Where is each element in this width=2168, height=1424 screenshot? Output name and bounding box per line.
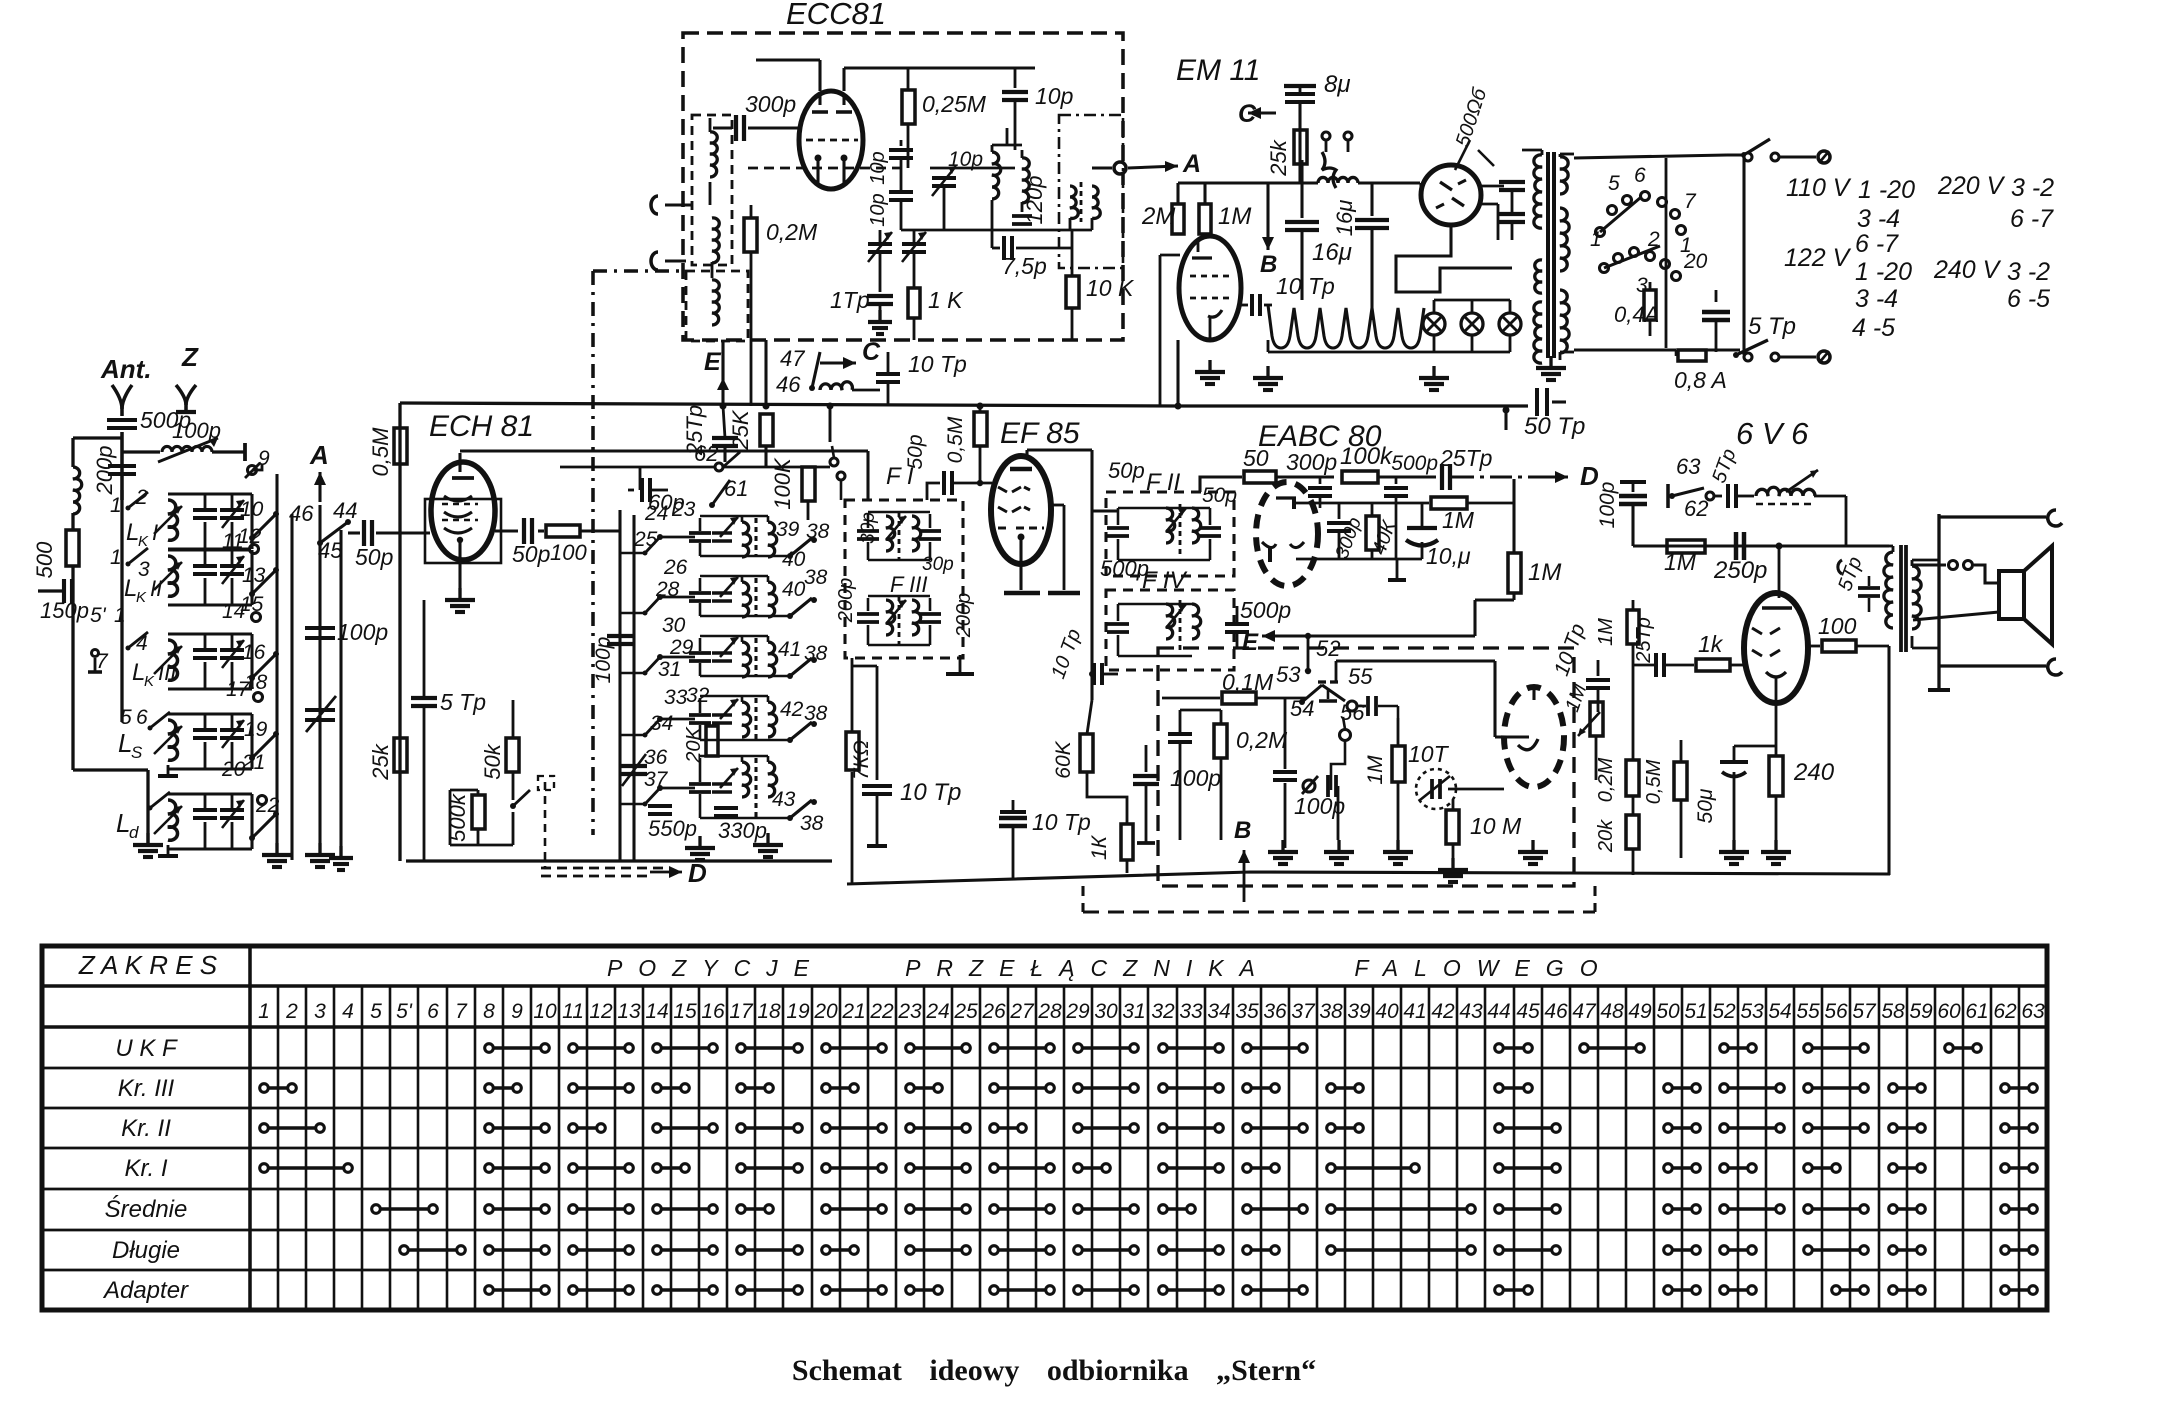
coil FM lower2 [712, 280, 719, 325]
svg-text:2M: 2M [1141, 203, 1175, 230]
svg-text:1: 1 [110, 546, 122, 569]
svg-text:45: 45 [1516, 1000, 1540, 1023]
terminal bottom right [2048, 659, 2062, 675]
svg-text:50μ: 50μ [1694, 788, 1717, 823]
wire 6V6 bottom [1887, 646, 1890, 875]
capacitor 50u cathode [1733, 746, 1736, 760]
svg-text:5': 5' [90, 604, 107, 627]
svg-text:Kr. III: Kr. III [118, 1075, 175, 1102]
capacitor 50p ECH81 output [495, 529, 518, 532]
resistor 25k [394, 738, 407, 772]
svg-text:7,5p: 7,5p [1002, 253, 1047, 279]
svg-text:E: E [1242, 629, 1259, 656]
svg-text:1М: 1М [1364, 755, 1387, 785]
svg-text:38: 38 [804, 642, 828, 665]
svg-text:20: 20 [1683, 250, 1708, 273]
svg-text:25Тp: 25Тp [1633, 617, 1655, 664]
svg-text:0,25M: 0,25M [922, 91, 987, 117]
svg-text:C: C [862, 338, 881, 366]
svg-text:14: 14 [645, 1000, 668, 1023]
svg-text:0,2M: 0,2M [766, 219, 818, 245]
svg-text:50k: 50k [480, 743, 505, 779]
svg-text:41: 41 [778, 638, 801, 661]
svg-text:5': 5' [396, 1000, 413, 1023]
svg-text:Z A K R E S: Z A K R E S [78, 950, 218, 980]
coil FM antenna upper [710, 132, 717, 177]
svg-text:31: 31 [658, 658, 681, 681]
wire ECH81 stage box [398, 403, 401, 861]
switch levers coil bank [252, 514, 276, 538]
svg-text:46: 46 [289, 501, 314, 526]
svg-text:12: 12 [589, 1000, 613, 1023]
wire EF85 plate to FII [1025, 450, 1028, 456]
dashed box FM input coil lower [686, 271, 748, 341]
capacitor 5Tp mains [1715, 290, 1718, 302]
svg-text:1М: 1М [1528, 559, 1561, 586]
power transformer secondary windings [1560, 157, 1568, 194]
svg-text:100k: 100k [1340, 443, 1394, 470]
svg-text:15: 15 [673, 1000, 697, 1023]
resistor 7K2 decoupling [851, 658, 854, 732]
dashed box FIV [1106, 590, 1234, 670]
dash-dot inner box right [1059, 115, 1123, 268]
resistor 10K [1071, 248, 1074, 276]
svg-text:43: 43 [772, 788, 796, 811]
core arrow of Ld [154, 806, 182, 834]
svg-text:10Т: 10Т [1408, 741, 1450, 767]
IF-osc transformer row 5 [660, 787, 695, 790]
wire antenna bus [120, 432, 124, 500]
svg-text:1М: 1М [1595, 618, 1617, 646]
terminal to A [1092, 166, 1112, 169]
svg-text:60: 60 [1937, 1000, 1961, 1023]
wire ECH81 anode to FI [460, 449, 868, 452]
svg-text:5: 5 [1608, 172, 1620, 195]
resistor 1M 6V6 grid [1667, 540, 1705, 553]
svg-text:16μ: 16μ [1312, 239, 1352, 266]
coil output link primary [1070, 186, 1078, 218]
svg-text:Długie: Długie [112, 1237, 180, 1264]
capacitor 200p [108, 464, 136, 468]
svg-text:5: 5 [370, 1000, 382, 1023]
svg-text:110 V: 110 V [1786, 174, 1852, 202]
svg-text:28: 28 [1037, 1000, 1062, 1023]
svg-text:29: 29 [669, 636, 694, 659]
wire bottom left to Ld [73, 768, 148, 771]
svg-text:26: 26 [663, 556, 688, 579]
svg-text:K: K [144, 673, 155, 690]
svg-text:0,5M: 0,5M [944, 416, 967, 463]
ground speaker [1928, 688, 1950, 692]
svg-text:16μ: 16μ [1332, 200, 1357, 237]
mains switch bottom [1733, 352, 1739, 358]
svg-text:19: 19 [244, 718, 268, 741]
svg-text:44: 44 [1487, 1000, 1510, 1023]
svg-text:51: 51 [1684, 1000, 1707, 1023]
svg-text:6: 6 [1634, 164, 1646, 187]
mains selector upper fan [1596, 228, 1605, 237]
wire osc section [901, 229, 1092, 232]
svg-text:23: 23 [897, 1000, 922, 1023]
small switch levers left side [128, 492, 148, 508]
dashed leader to D bottom [545, 782, 560, 868]
resistor 100K [802, 467, 815, 501]
svg-text:C: C [1238, 100, 1257, 128]
table connection marks [489, 1046, 545, 1050]
svg-text:27: 27 [1009, 1000, 1035, 1023]
capacitor 10p variable osc [930, 167, 968, 170]
ground heater [1268, 351, 1510, 354]
svg-text:48: 48 [1600, 1000, 1624, 1023]
capacitor 1Tp [867, 294, 893, 298]
svg-text:PRZEŁĄCZNIKA: PRZEŁĄCZNIKA [905, 955, 1271, 981]
svg-text:38: 38 [806, 520, 830, 543]
svg-text:25k: 25k [1266, 139, 1291, 176]
svg-text:40: 40 [782, 548, 806, 571]
svg-text:47: 47 [780, 346, 805, 371]
fuse 0,8A [1650, 348, 1676, 351]
svg-text:1 K: 1 K [928, 287, 964, 313]
resistor 1M EM11 [1199, 204, 1211, 234]
svg-text:ECC81: ECC81 [786, 0, 886, 31]
svg-text:Średnie: Średnie [105, 1195, 188, 1223]
svg-text:100p: 100p [592, 637, 615, 684]
svg-text:B: B [1260, 251, 1277, 278]
tube EABC80 envelope dashed [1256, 482, 1318, 586]
arrow C left [1248, 111, 1276, 114]
svg-text:36: 36 [1263, 1000, 1287, 1023]
svg-text:35: 35 [1235, 1000, 1259, 1023]
coil FM antenna lower [712, 218, 719, 263]
svg-text:A: A [1182, 150, 1201, 178]
svg-text:150p: 150p [40, 598, 89, 623]
svg-text:FALOWEGO: FALOWEGO [1354, 955, 1613, 981]
coil output link secondary [1092, 186, 1100, 218]
svg-text:36: 36 [644, 746, 668, 769]
wire EF85 bottom bus [847, 872, 1890, 884]
svg-text:1 -20: 1 -20 [1855, 258, 1912, 286]
dashed box EABC80 section [1158, 648, 1574, 886]
output transformer [1884, 552, 1893, 628]
svg-text:33: 33 [664, 686, 688, 709]
svg-text:46: 46 [1544, 1000, 1568, 1023]
svg-text:30p: 30p [858, 512, 879, 544]
tube EABC80 triode dashed [1504, 687, 1564, 787]
svg-text:1М: 1М [1442, 507, 1475, 533]
svg-text:33: 33 [1179, 1000, 1203, 1023]
svg-text:3: 3 [138, 558, 150, 581]
svg-text:29: 29 [1065, 1000, 1090, 1023]
resistor 1K EF85 cathode [1121, 824, 1133, 860]
svg-text:6 -7: 6 -7 [1855, 230, 1899, 258]
svg-text:21: 21 [841, 1000, 865, 1023]
resistor 500k [477, 790, 480, 795]
switch lever right row 1 [768, 555, 790, 558]
wire matrix left buses [618, 510, 621, 861]
svg-text:55: 55 [1796, 1000, 1820, 1023]
svg-text:5: 5 [120, 706, 132, 729]
svg-text:300p: 300p [1286, 449, 1337, 475]
switch 62 contact [560, 466, 830, 469]
mains switch top [1727, 153, 1744, 156]
svg-text:18: 18 [757, 1000, 781, 1023]
capacitor fixed of Ls circuit [168, 712, 252, 715]
svg-text:34: 34 [1207, 1000, 1230, 1023]
resistor 1K ECC81 cathode [908, 288, 920, 318]
capacitor 16u first [1300, 160, 1303, 218]
grounds EABC80 [1281, 840, 1284, 852]
svg-text:41: 41 [1403, 1000, 1426, 1023]
svg-text:58: 58 [1881, 1000, 1905, 1023]
svg-text:1k: 1k [1698, 631, 1724, 657]
svg-text:0,8 A: 0,8 A [1674, 367, 1727, 393]
wire band-switch left bus [120, 490, 123, 722]
capacitor 500p antenna series [107, 418, 137, 422]
capacitor 10Tp ECC81 [852, 389, 880, 392]
arrow E exit [721, 340, 724, 380]
capacitor 300p AF [1338, 503, 1341, 519]
potentiometer 1M feedback [1590, 702, 1603, 736]
svg-text:4: 4 [342, 1000, 354, 1023]
ground matrix rows [698, 836, 701, 848]
svg-text:32: 32 [686, 684, 710, 707]
svg-text:10 Tp: 10 Tp [908, 351, 967, 377]
svg-text:6 -5: 6 -5 [2007, 285, 2050, 313]
coil oscillator [992, 152, 1001, 199]
svg-text:31: 31 [1122, 1000, 1145, 1023]
svg-text:1 -20: 1 -20 [1858, 176, 1915, 204]
svg-text:6: 6 [136, 706, 148, 729]
svg-text:0,5M: 0,5M [368, 427, 393, 477]
switch lever left row 1 [657, 534, 663, 540]
resistor 1M AF divider [1397, 718, 1400, 746]
svg-text:200p: 200p [92, 446, 117, 496]
wire rectifier to transformer [1419, 183, 1422, 195]
wire tuning bus 44 [339, 530, 342, 858]
svg-text:0,5М: 0,5М [1643, 759, 1665, 804]
capacitor trimmer of Ls circuit [231, 714, 234, 728]
svg-text:28: 28 [655, 578, 680, 601]
svg-text:1: 1 [110, 494, 122, 517]
svg-text:50: 50 [1656, 1000, 1680, 1023]
svg-text:E: E [704, 348, 722, 376]
svg-text:50 Тp: 50 Тp [1524, 413, 1585, 440]
svg-text:6 V 6: 6 V 6 [1736, 416, 1809, 451]
capacitor 10p top right [1014, 68, 1017, 88]
svg-text:Schemat ideowy odbiornika „: Schemat ideowy odbiornika „Stern“ [792, 1354, 1316, 1387]
svg-text:S: S [131, 743, 143, 762]
wire switch vertical [1742, 157, 1745, 355]
capacitor trimmer of Lx I circuit [231, 494, 234, 508]
svg-text:16: 16 [701, 1000, 725, 1023]
capacitor fixed of Lx III circuit [168, 632, 252, 635]
svg-text:62: 62 [694, 441, 718, 466]
dashed box ECC81 UKF unit [683, 33, 1123, 340]
capacitor 16u second [1370, 183, 1373, 216]
svg-text:0,2М: 0,2М [1595, 757, 1617, 802]
capacitor 100p AVC lower [1284, 698, 1287, 769]
terminal 7 stub [94, 658, 97, 672]
svg-text:10: 10 [533, 1000, 557, 1023]
resistor 10M [1452, 800, 1455, 810]
svg-text:7КΩ: 7КΩ [850, 740, 873, 780]
svg-text:1: 1 [258, 1000, 270, 1023]
coil 120p tank [1022, 158, 1029, 203]
svg-text:K: K [136, 589, 147, 606]
svg-text:Kr. II: Kr. II [121, 1115, 171, 1142]
capacitor 50Tp [1178, 404, 1528, 407]
wire 25Tp branch [721, 340, 724, 406]
svg-text:38: 38 [804, 702, 828, 725]
net detector bottom rail [1296, 558, 1422, 561]
wire main B+ bus [400, 403, 1178, 406]
svg-text:47: 47 [1572, 1000, 1597, 1023]
capacitor fixed of Lx II circuit [168, 548, 252, 551]
coil antenna choke [73, 467, 82, 514]
grid wire triode [1448, 788, 1504, 791]
terminal top right [2048, 510, 2062, 526]
svg-text:F III: F III [890, 572, 928, 597]
svg-text:Adapter: Adapter [102, 1277, 189, 1304]
capacitor 330p [714, 806, 738, 810]
svg-text:240: 240 [1793, 759, 1835, 786]
svg-text:60p: 60p [648, 490, 685, 515]
svg-text:25: 25 [633, 528, 658, 551]
resistor 100 ECH81 stopper [538, 529, 544, 532]
svg-text:54: 54 [1768, 1000, 1791, 1023]
IF transformer FIV [1107, 622, 1129, 626]
svg-text:40: 40 [782, 578, 806, 601]
wire 6V6 grid line [1633, 544, 1889, 547]
capacitor trimmer of Lx III circuit [231, 634, 234, 648]
svg-text:1M: 1M [1218, 203, 1251, 230]
svg-text:50p: 50p [1108, 458, 1145, 483]
arrow B down [1266, 210, 1269, 250]
svg-text:25K: 25K [728, 409, 753, 450]
svg-text:10 Тp: 10 Тp [1032, 809, 1091, 835]
IF-osc transformer row 1 [660, 536, 695, 539]
capacitor 100p tuning bus [318, 543, 321, 855]
svg-text:16: 16 [242, 641, 266, 664]
switch AGC lever [510, 803, 516, 809]
svg-text:3 -4: 3 -4 [1857, 205, 1900, 233]
svg-text:550p: 550p [648, 816, 697, 841]
dash-dot line to D arrow [1452, 475, 1556, 478]
svg-text:50p: 50p [355, 544, 394, 570]
svg-text:44: 44 [333, 498, 357, 523]
capacitor 100p matrix [607, 634, 633, 638]
contacts above matrix [830, 458, 838, 466]
svg-text:300p: 300p [745, 91, 796, 117]
svg-text:5 Tp: 5 Tp [1748, 313, 1796, 340]
ground EF85 cathode [1004, 591, 1040, 596]
svg-text:25: 25 [953, 1000, 978, 1023]
svg-text:10,μ: 10,μ [1426, 543, 1471, 569]
svg-text:500p: 500p [1240, 597, 1291, 623]
svg-text:240 V: 240 V [1933, 256, 2002, 284]
svg-text:6: 6 [427, 1000, 439, 1023]
svg-text:10 Тp: 10 Тp [900, 779, 961, 806]
svg-text:7: 7 [455, 1000, 468, 1023]
svg-text:32: 32 [1151, 1000, 1175, 1023]
svg-text:52: 52 [1712, 1000, 1736, 1023]
svg-text:0,2М: 0,2М [1236, 727, 1288, 753]
svg-text:53: 53 [1276, 662, 1301, 687]
switch lever left row 3 [657, 654, 663, 660]
svg-text:10 Тp: 10 Тp [1276, 273, 1335, 299]
svg-text:50: 50 [1243, 445, 1269, 471]
svg-text:37: 37 [1291, 1000, 1316, 1023]
switch lever right row 5 [768, 817, 790, 820]
resistor 50k [512, 700, 515, 738]
svg-text:7: 7 [1684, 190, 1697, 213]
svg-text:10 K: 10 K [1086, 275, 1135, 301]
svg-text:500: 500 [32, 541, 57, 578]
core arrow of Lx II [154, 562, 182, 590]
rectifier tube [1421, 165, 1481, 225]
arrow E right [1262, 634, 1290, 637]
ground transformer [1549, 358, 1552, 368]
svg-text:60K: 60K [1052, 740, 1075, 778]
svg-text:1Tp: 1Tp [830, 287, 870, 313]
svg-text:Ant.: Ant. [100, 354, 152, 384]
svg-text:61: 61 [724, 476, 748, 501]
resistor 500 [71, 513, 74, 530]
switch lever left row 5 [657, 785, 663, 791]
svg-text:F II: F II [1146, 469, 1181, 496]
svg-text:200p: 200p [835, 578, 857, 624]
ground ECH81 cathode [458, 588, 461, 600]
svg-text:1М: 1М [1664, 549, 1697, 575]
tube 6V6 envelope [1744, 593, 1808, 703]
svg-text:42: 42 [780, 698, 804, 721]
switch-position table frame [42, 946, 2047, 1310]
capacitor 10p stack lower [889, 190, 913, 194]
svg-text:Z: Z [181, 342, 199, 372]
wire grid line [748, 167, 908, 170]
resistor 25K branch [764, 340, 767, 406]
svg-text:55: 55 [1348, 664, 1373, 689]
capacitor fixed of Ld circuit [168, 792, 252, 795]
svg-text:40: 40 [1375, 1000, 1399, 1023]
fuse 0,4A [1644, 290, 1656, 320]
svg-text:3 -4: 3 -4 [1855, 285, 1898, 313]
switch contact 9 [248, 466, 257, 475]
svg-text:Kr. I: Kr. I [124, 1155, 167, 1182]
wire bus junctions [829, 406, 832, 442]
switch lever left row 2 [657, 594, 663, 600]
svg-text:200p: 200p [953, 593, 975, 639]
ground EF85 g3 [1051, 504, 1064, 507]
svg-text:11: 11 [562, 1000, 584, 1023]
svg-text:100p: 100p [1596, 482, 1619, 529]
svg-text:EF 85: EF 85 [1000, 417, 1080, 450]
IF transformer FII [1107, 526, 1129, 530]
IF transformer FI [857, 529, 879, 533]
capacitor 250p [1734, 532, 1738, 560]
rectifier caps [1481, 185, 1504, 188]
svg-text:B: B [1234, 817, 1251, 844]
svg-text:100p: 100p [1170, 765, 1221, 791]
dashed box FII [1106, 492, 1234, 576]
capacitor 150p [38, 589, 62, 592]
svg-text:62: 62 [1684, 496, 1708, 521]
resistor 2M [1172, 204, 1184, 234]
svg-text:26: 26 [981, 1000, 1006, 1023]
tube ECH81 [431, 462, 495, 560]
svg-text:50p: 50p [512, 541, 551, 567]
resistor 25k supply [1294, 130, 1307, 164]
